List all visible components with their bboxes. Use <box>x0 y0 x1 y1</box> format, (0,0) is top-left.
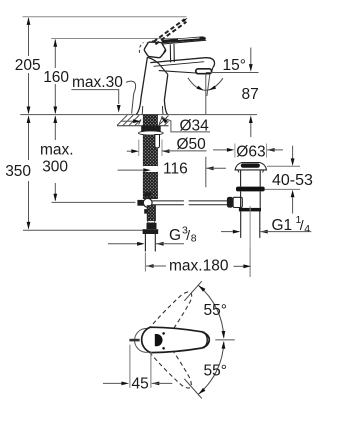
drain seal ring <box>236 187 265 192</box>
svg-text:55°: 55° <box>204 363 227 380</box>
dimension 160 <box>54 40 56 114</box>
dimension 87 <box>250 48 252 65</box>
svg-text:max.30: max.30 <box>72 74 123 91</box>
phantom arc (lever travel) <box>139 42 143 52</box>
svg-text:4: 4 <box>304 223 310 235</box>
rod clamp lower <box>144 209 151 214</box>
faucet base inner lines <box>141 106 144 114</box>
drain lower band <box>239 208 261 212</box>
handle socket <box>144 42 165 58</box>
svg-text:116: 116 <box>163 160 188 177</box>
svg-text:G: G <box>169 227 181 244</box>
svg-text:8: 8 <box>191 232 197 244</box>
washer ellipse <box>138 131 163 135</box>
svg-text:max.180: max.180 <box>169 258 229 275</box>
supply hose braid <box>147 206 155 221</box>
tailpipe walls <box>240 211 242 238</box>
drain plug pill <box>241 163 260 167</box>
rod clamp upper <box>144 192 151 197</box>
drain side port <box>233 197 242 207</box>
dimension max.180 <box>144 253 146 272</box>
55deg arc lower <box>198 342 223 394</box>
label diameter 50 <box>138 140 140 157</box>
dimension 205 <box>28 18 30 113</box>
label G3/8 <box>108 243 137 245</box>
connection tube <box>144 234 146 252</box>
hose collar <box>148 221 155 223</box>
svg-text:160: 160 <box>43 69 69 86</box>
angle leg lower <box>184 379 202 399</box>
mounting nut <box>141 126 161 133</box>
phantom lever rotated down 52deg (dashed) <box>138 326 198 394</box>
svg-text:87: 87 <box>242 86 259 103</box>
svg-text:15°: 15° <box>223 57 246 74</box>
spout inner top line <box>154 62 205 67</box>
faucet body: left edge <box>136 57 147 114</box>
lever blade (solid) <box>162 37 206 43</box>
svg-text:40-53: 40-53 <box>272 172 313 189</box>
node: max.300 bottom reference / pop-up rod left <box>52 201 136 203</box>
15 deg swivel arc <box>188 78 223 90</box>
ball joint <box>143 198 152 207</box>
dimension 116 <box>144 166 157 172</box>
horizontal rod to drain <box>152 201 227 205</box>
label diameter 63 <box>234 144 236 158</box>
svg-text:300: 300 <box>42 159 68 176</box>
svg-text:G1: G1 <box>272 217 293 234</box>
drain body upper walls <box>240 170 242 187</box>
svg-text:Ø63: Ø63 <box>236 143 265 160</box>
drain body lower walls <box>240 191 242 208</box>
rod ferrule at drain <box>227 197 233 208</box>
phantom lever rotated up 52deg (dashed) <box>138 286 198 354</box>
hose nut upper <box>147 223 157 229</box>
node: top reference line (205 level) <box>23 16 187 18</box>
lever tip arcs <box>204 332 208 348</box>
threaded shank <box>143 115 157 126</box>
spout bottom edge <box>159 71 197 73</box>
lever blade underside line <box>163 40 207 44</box>
lever top view <box>142 327 210 352</box>
label diameter 34 with leader <box>160 116 168 124</box>
node: 350 bottom reference line <box>23 229 146 231</box>
55deg arc upper <box>198 285 223 337</box>
cap set screw protrusion <box>129 339 139 342</box>
aerator <box>196 69 212 74</box>
handle neck <box>169 44 171 62</box>
faucet body: top dome <box>147 57 158 63</box>
nut G3/8 <box>143 229 159 234</box>
spout stream vertical line <box>205 74 207 115</box>
lever marker blob <box>155 334 163 346</box>
svg-text:Ø50: Ø50 <box>177 136 207 153</box>
node: countertop line <box>20 114 257 116</box>
svg-text:205: 205 <box>15 57 41 74</box>
dimension max.300 <box>54 117 56 201</box>
node: counter underside line <box>117 125 169 127</box>
svg-text:45: 45 <box>132 376 149 393</box>
spout tilted line (15 deg) <box>207 74 210 96</box>
faucet body: right edge <box>164 74 167 114</box>
svg-text:55°: 55° <box>204 302 227 319</box>
svg-text:/: / <box>300 217 304 233</box>
pop-up rod knob <box>137 200 144 206</box>
counter hatching <box>117 115 168 125</box>
svg-text:Ø34: Ø34 <box>180 118 210 135</box>
handle cap circle <box>135 328 159 352</box>
drain centerline <box>249 206 251 248</box>
pull rod lower end <box>155 135 160 148</box>
svg-text:/: / <box>186 227 190 243</box>
phantom raised lever (dashed) <box>154 19 187 44</box>
dimension 40-53 <box>292 146 294 159</box>
dimension 45 <box>129 345 131 388</box>
angle leg upper <box>184 281 202 301</box>
dimension 350 <box>28 117 30 229</box>
node: reference line (160 level) <box>51 38 203 40</box>
svg-text:max.: max. <box>40 142 74 159</box>
centerline right <box>215 339 235 341</box>
spout top edge with nose <box>150 58 214 68</box>
drain flange lip <box>238 170 239 173</box>
label G1 1/4 <box>233 230 241 234</box>
faucet body: shoulder joint <box>159 63 168 74</box>
drain flange dome <box>235 163 266 170</box>
svg-text:350: 350 <box>5 163 31 180</box>
